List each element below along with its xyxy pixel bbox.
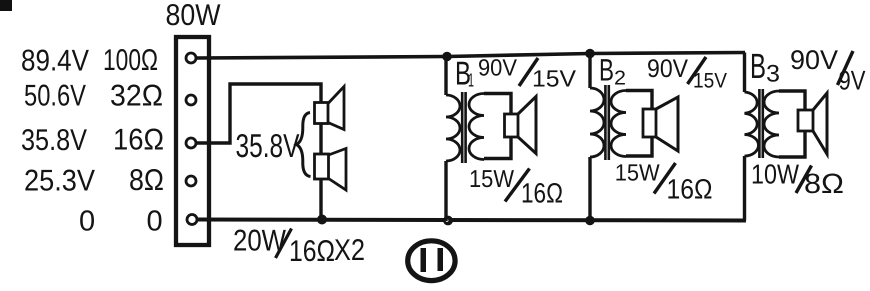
svg-text:X2: X2 [334,234,365,267]
svg-text:16Ω: 16Ω [667,173,713,204]
junction series speakers / 0V bus [317,215,327,225]
svg-text:90V: 90V [790,45,838,75]
label 35.8V 16ohm [21,124,164,157]
speaker of B1 [505,97,537,154]
label 35.8V (series group) [236,127,300,164]
svg-text:35.8V: 35.8V [21,124,87,157]
svg-text:15W: 15W [615,160,661,186]
label 50.6V 32ohm [24,80,163,113]
svg-text:16Ω: 16Ω [289,235,335,268]
svg-text:80W: 80W [166,0,222,32]
svg-text:25.3V: 25.3V [24,164,95,197]
transformer B3 [745,53,806,221]
brace 35.8V group [297,113,311,177]
svg-text:B: B [750,47,766,86]
label B1 [455,55,474,92]
label 90V/9V (B3 ratio) [790,45,866,96]
junction B1 primary / bottom bus [444,217,451,224]
terminal tap 35.8V [186,138,196,148]
svg-text:15V: 15V [532,65,576,91]
svg-text:16Ω: 16Ω [113,124,164,157]
transformer B2 [590,54,652,221]
svg-text:3: 3 [766,61,780,88]
svg-text:35.8V: 35.8V [236,127,300,164]
svg-text:8Ω: 8Ω [804,168,844,199]
svg-text:16Ω: 16Ω [521,178,563,209]
label B3 [750,47,780,88]
label 25.3V 8ohm [24,164,164,197]
svg-text:100Ω: 100Ω [103,44,158,77]
svg-text:90V: 90V [647,55,688,83]
wire series speakers to 0V bus [319,179,322,220]
svg-text:15W: 15W [469,166,515,193]
svg-text:B: B [599,53,614,88]
label 15W/16ohm (B1 speaker) [469,166,563,209]
svg-text:50.6V: 50.6V [24,80,86,113]
svg-text:8Ω: 8Ω [129,164,164,197]
label 90V/15V (B1 ratio) [478,54,576,91]
svg-text:15V: 15V [693,69,727,92]
svg-text:0: 0 [79,206,95,238]
label 90V/15V (B2 ratio) [647,55,727,92]
speaker of B3 [798,93,827,154]
figure number 11 [408,241,455,281]
terminal tap 25.3V [186,176,196,186]
label 80W (autotransformer rating) [166,0,222,32]
label 89.4V 100ohm [21,44,158,78]
svg-text:90V: 90V [478,54,517,80]
svg-text:2: 2 [614,68,626,90]
svg-text:89.4V: 89.4V [21,45,89,78]
wire bottom line (0V bus) [197,220,746,221]
label B2 [599,53,626,90]
label 20W/16ohm x2 [233,225,365,269]
svg-text:10W: 10W [751,159,799,190]
label 15W/16ohm (B2 speaker) [615,160,713,205]
svg-text:0: 0 [147,206,163,238]
speaker LS1a (series pair, upper) [315,87,345,130]
label 0 0 [79,206,163,238]
terminal tap 89.4V [186,53,196,63]
svg-text:32Ω: 32Ω [110,80,163,113]
scan corner mark [0,0,12,11]
terminal tap 50.6V [186,95,196,105]
transformer B1 [446,57,511,222]
junction B2 primary / top bus [585,49,595,59]
wire top line (89.4V bus) [196,53,745,59]
svg-text:1: 1 [468,71,474,92]
wire between series speakers [319,124,322,155]
junction B2 primary / bottom bus [585,216,595,226]
label 10W/8ohm (B3 speaker) [751,159,844,200]
autotransformer T1 tap box [176,37,209,245]
terminal tap 0 [187,215,197,225]
speaker of B2 [643,97,678,151]
speaker LS1b (series pair, lower) [315,149,347,191]
wire 35.8V branch [196,84,321,143]
junction B1 primary / top bus [442,52,452,62]
